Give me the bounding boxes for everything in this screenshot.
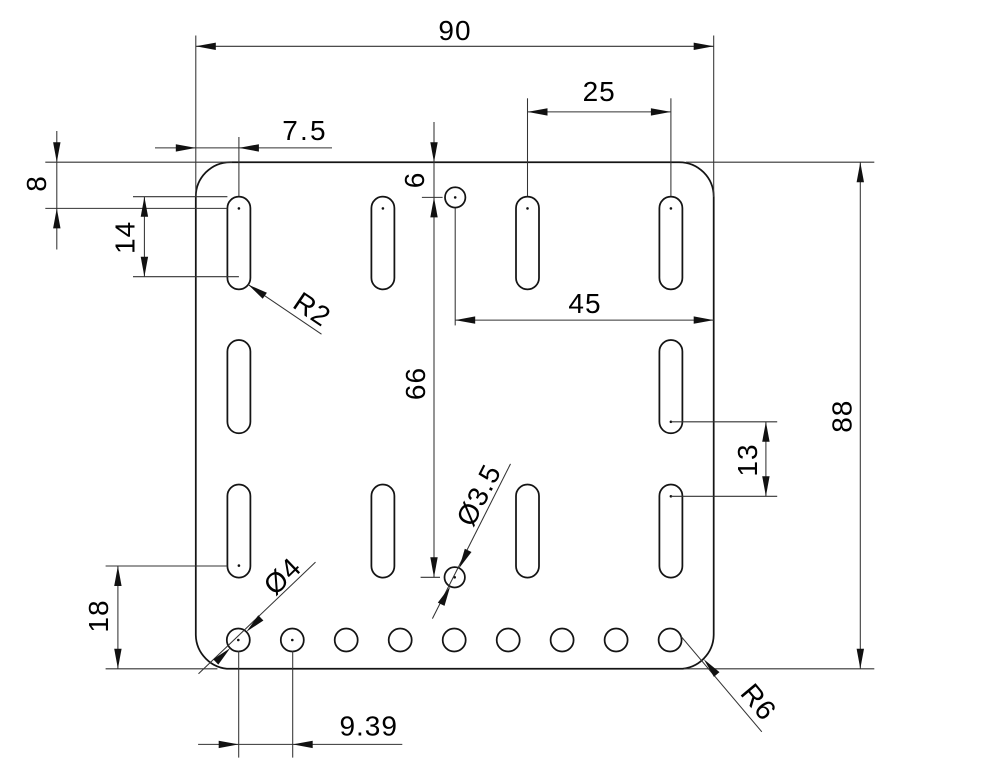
svg-text:90: 90 [438, 15, 471, 46]
hole B1 (Ø4 bottom row) [227, 629, 250, 652]
leader Ø4 (bottom row hole diameter) [199, 551, 316, 674]
hole B5 (Ø4 bottom row) [443, 629, 466, 652]
slot row3 col4 [659, 485, 682, 578]
center point marks [237, 196, 672, 641]
dimension 13 (right slot gap) [671, 422, 777, 497]
hole B6 (Ø4 bottom row) [497, 629, 520, 652]
dimension 9.39 (bottom hole pitch) [198, 651, 402, 758]
hole B2 (Ø4 bottom row) [281, 629, 304, 652]
svg-text:9.39: 9.39 [339, 711, 398, 742]
svg-text:7.5: 7.5 [282, 115, 328, 146]
dimension 90 (top width) [196, 15, 714, 197]
slot row3 col3 [516, 485, 539, 578]
slot row1 col4 [659, 197, 682, 290]
dimension 45 (hole H1 to right edge) [455, 208, 714, 325]
svg-text:45: 45 [568, 288, 601, 319]
dimension 8 (slot top offset, left) [21, 131, 232, 250]
dimension 66 (hole spacing vertical) [400, 367, 440, 577]
svg-text:66: 66 [400, 367, 431, 400]
slot row3 col1 [227, 485, 250, 578]
plate outline (90 x 88 plate, R6 corners) [196, 162, 714, 669]
slot row2 col4 [659, 340, 682, 433]
hole B3 (Ø4 bottom row) [335, 629, 358, 652]
slot row1 col3 [516, 197, 539, 290]
svg-text:13: 13 [732, 443, 763, 476]
hole H1 (Ø3.5, top) [445, 187, 465, 207]
hole B4 (Ø4 bottom row) [389, 629, 412, 652]
hole H2 (Ø3.5, lower) [445, 567, 465, 587]
dimension 6 (hole H1 offset from top) [399, 122, 443, 577]
dimension 88 (right height) [684, 162, 874, 669]
slot row1 col2 [371, 197, 394, 290]
leader Ø3.5 (hole H2 diameter) [432, 459, 510, 618]
dimension 18 (slot bottom offset, left) [83, 566, 227, 669]
hole B9 (Ø4 bottom row) [659, 629, 682, 652]
svg-text:6: 6 [399, 172, 430, 189]
dimension 14 (slot length, left) [110, 197, 239, 277]
dimension 7.5 (left slot offset) [155, 115, 332, 196]
hole B8 (Ø4 bottom row) [605, 629, 628, 652]
dimension 25 (top slot spacing) [528, 76, 671, 196]
slot row1 col1 [227, 197, 250, 290]
svg-text:25: 25 [583, 76, 616, 107]
svg-text:18: 18 [83, 599, 114, 632]
leader R6 (corner radius) [681, 636, 783, 732]
slot row2 col1 [227, 340, 250, 433]
slot row3 col2 [371, 485, 394, 578]
svg-text:14: 14 [110, 221, 141, 254]
hole B7 (Ø4 bottom row) [551, 629, 574, 652]
leader R2 (slot end radius) [248, 285, 336, 335]
svg-text:8: 8 [21, 175, 52, 192]
svg-text:88: 88 [827, 400, 858, 433]
